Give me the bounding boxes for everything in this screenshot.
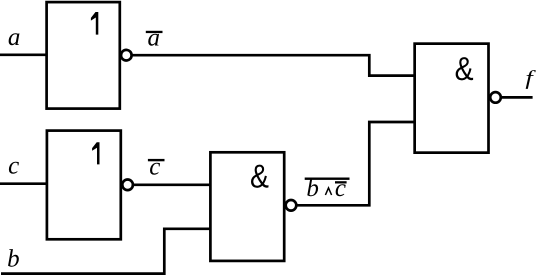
nand U3 output bubble [490,92,501,103]
inverter U2 symbol label "1" [92,142,99,164]
svg-text:a: a [8,24,21,51]
nand U3 (AND-NOT gate, right) [415,44,489,153]
svg-text:c: c [8,153,19,180]
svg-text:c: c [149,153,160,180]
net label a-bar: overbar [146,31,163,33]
inverter U1 output bubble [121,50,132,61]
net label c-bar: overbar [148,159,165,161]
wire: output f [501,96,533,99]
inverter U1 symbol label "1" [91,12,98,35]
wire: net a-bar from U1 bubble, jog down into U3 pin 1 [132,55,415,75]
svg-text:&: & [455,50,474,87]
net label b-and-c-bar: overbar on c [335,181,347,183]
svg-text:b: b [7,246,20,273]
wire: input b (bottom run, up-jog into U4 pin 2) [1,229,210,274]
wire: input a [0,53,47,56]
wire: input c [0,182,47,185]
wire: net c-bar from U2 bubble to U4 pin 1 [133,183,211,186]
inverter U1 (NOT gate, top) [47,2,120,109]
inverter U2 output bubble [122,180,133,191]
svg-text:&: & [250,157,269,194]
net label b-and-c-bar: long overbar [305,178,350,180]
nand U4 (AND-NOT gate, middle) [210,152,284,261]
net label b-and-c-bar: wedge (logical AND) [325,188,331,195]
nand U4 output bubble [286,200,297,211]
svg-text:a: a [148,25,161,52]
inverter U2 (NOT gate, bottom) [47,131,121,240]
svg-text:f: f [525,67,536,89]
wire: net b-and-c-bar from U4 bubble up into U3 pin 2 [296,122,414,205]
